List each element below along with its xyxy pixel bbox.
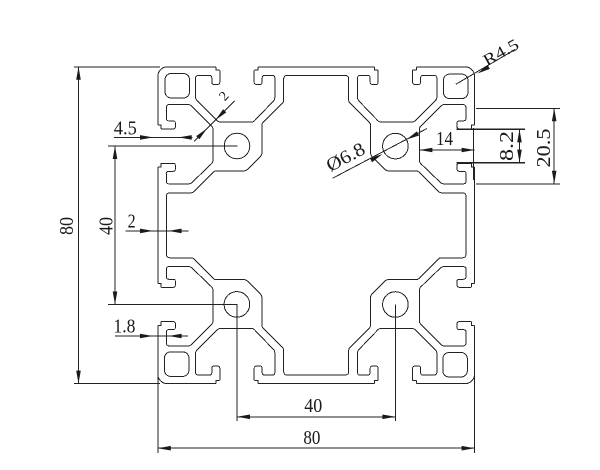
svg-text:2: 2 [128,211,136,233]
dim 40 left [108,145,238,147]
svg-text:1.8: 1.8 [113,316,135,338]
dim 40 bottom [236,305,238,422]
hole circle 1 [224,133,250,159]
dim 2 diagonal [194,101,235,142]
arrows 80 bottom [158,446,171,451]
corner cavity 4 [165,352,189,376]
svg-text:40: 40 [96,217,118,235]
leader R4.5 [456,49,516,84]
svg-text:8.2: 8.2 [496,131,518,161]
svg-text:20.5: 20.5 [533,129,555,168]
arrows 40 bottom [237,415,250,420]
arrows 20.5 [552,108,557,121]
corner cavity 1 [165,74,189,98]
corner cavity 3 [443,353,467,377]
dim 8.2 [457,128,526,130]
dim 4.5 [114,136,193,138]
dim 80 bottom [157,374,159,453]
svg-text:4.5: 4.5 [114,118,137,140]
dim 2 left [126,230,189,232]
arrows 80 left [76,67,81,80]
svg-text:80: 80 [56,217,78,235]
arrow R4.5 [478,65,490,74]
corner cavity 2 [444,74,468,98]
dim 20.5 [476,107,560,109]
svg-text:40: 40 [304,395,322,417]
arrows 2 diagonal [216,109,227,120]
leader dia6.8 [333,129,428,179]
arrows 40 left [113,146,118,159]
svg-text:80: 80 [303,427,320,449]
central cavity [167,76,466,375]
arrows 2 left [140,229,153,234]
arrows 14 [419,148,432,153]
dim 80 left [74,66,160,68]
arrow dia6.8 [370,154,383,162]
profile outer outline [158,67,475,384]
dim 1.8 [115,335,188,337]
dim 14 [419,149,474,151]
hole circle 4 [224,292,250,318]
arrows 4.5 [140,135,153,140]
arrows 1.8 [140,334,153,339]
svg-text:14: 14 [436,128,453,150]
hole circle 2 [383,133,409,159]
hole circle 3 [383,292,409,318]
arrows 8.2 [517,129,522,142]
